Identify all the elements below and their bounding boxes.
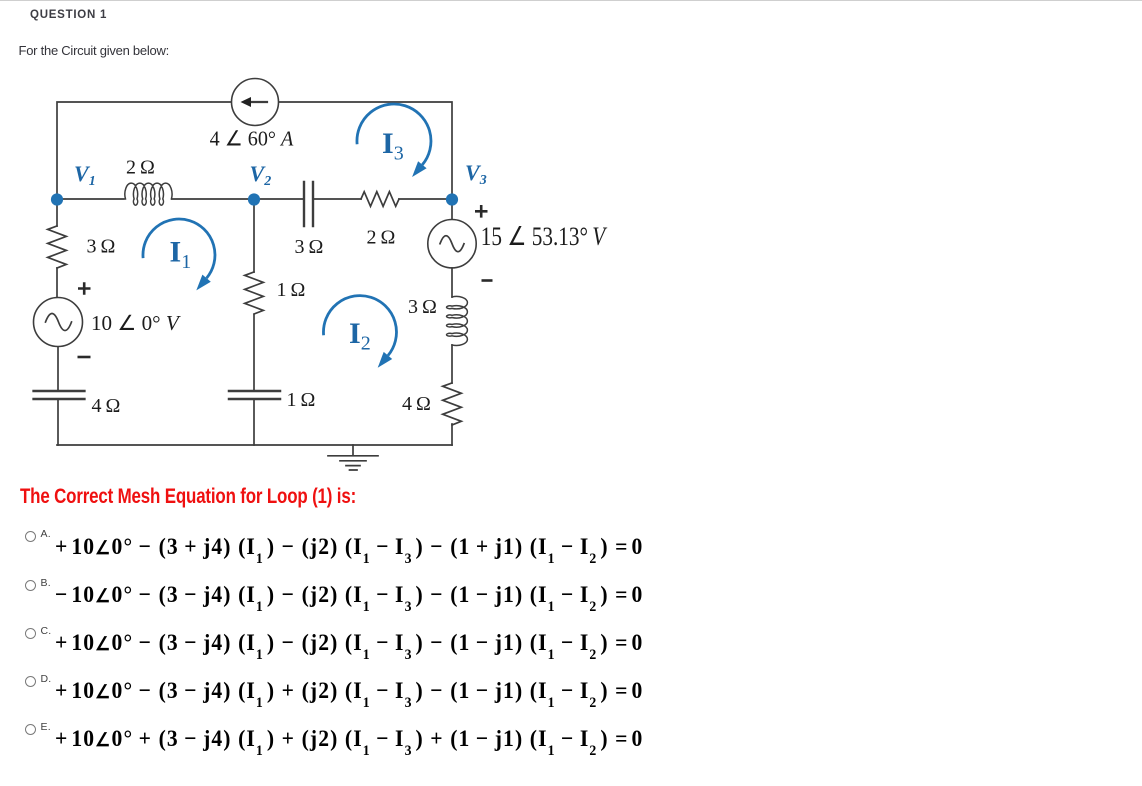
svg-text:2 Ω: 2 Ω <box>367 227 396 249</box>
svg-text:I1: I1 <box>170 236 192 274</box>
svg-text:1 Ω: 1 Ω <box>287 389 316 411</box>
svg-text:1 Ω: 1 Ω <box>277 279 306 301</box>
svg-text:4 Ω: 4 Ω <box>402 393 431 415</box>
svg-text:I2: I2 <box>349 317 371 355</box>
svg-text:4 ∠ 60° A: 4 ∠ 60° A <box>210 126 294 150</box>
svg-text:V3: V3 <box>465 160 487 188</box>
svg-text:V1: V1 <box>74 161 96 189</box>
svg-text:2 Ω: 2 Ω <box>126 157 155 179</box>
svg-text:15 ∠ 53.13° V: 15 ∠ 53.13° V <box>481 222 608 251</box>
svg-text:10 ∠ 0° V: 10 ∠ 0° V <box>91 311 181 335</box>
svg-text:4 Ω: 4 Ω <box>92 395 121 417</box>
svg-text:3 Ω: 3 Ω <box>87 236 116 258</box>
svg-text:3 Ω: 3 Ω <box>295 236 324 258</box>
svg-text:3 Ω: 3 Ω <box>408 296 437 318</box>
svg-text:I3: I3 <box>382 127 404 165</box>
svg-text:V2: V2 <box>250 161 272 189</box>
